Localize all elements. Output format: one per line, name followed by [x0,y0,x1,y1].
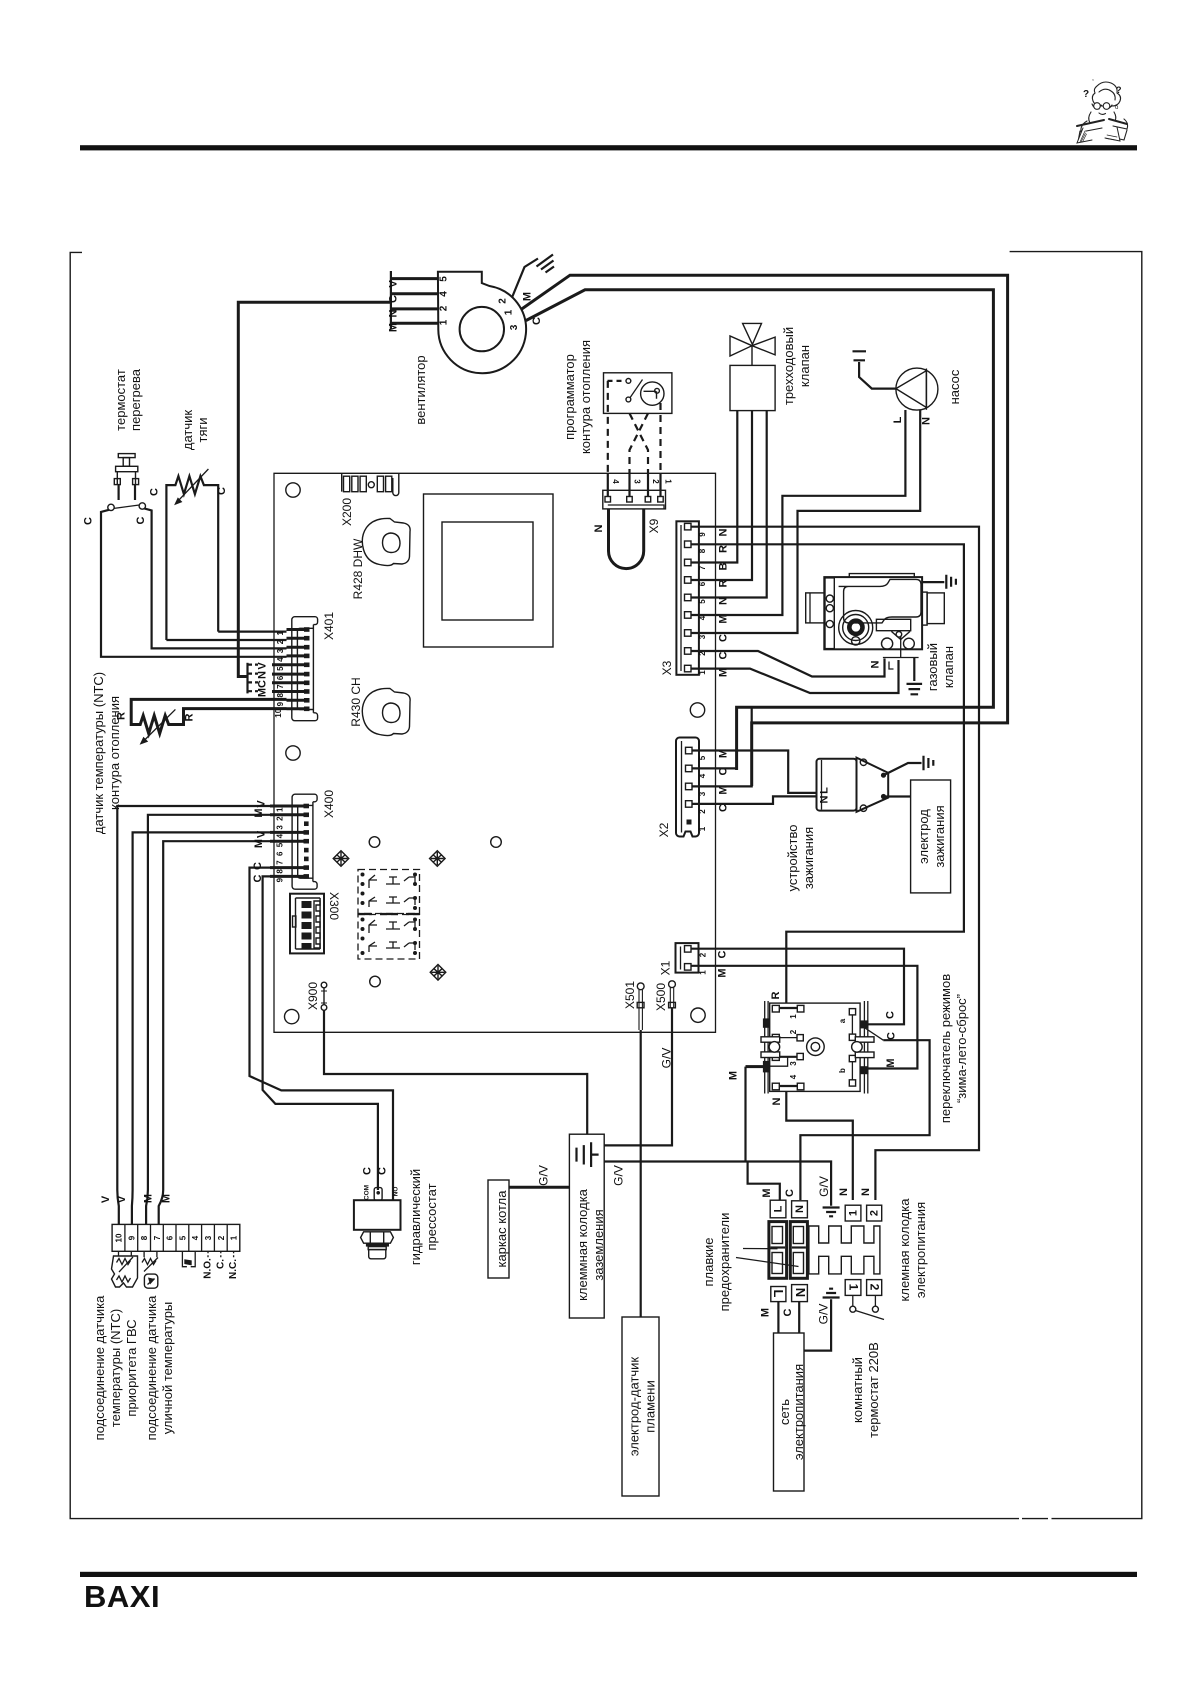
X900 wire to ground block [324,1010,587,1134]
PCB hole small mid [491,837,502,848]
svg-text:N: N [860,1188,872,1196]
comb body of power block [809,1226,880,1274]
svg-text:N: N [718,528,730,536]
svg-text:температуры (NTC): температуры (NTC) [108,1309,123,1427]
X401 connector body [292,617,318,721]
svg-text:N: N [838,1188,850,1196]
PCB mounting hole bottom-right [691,1008,705,1022]
X2 pin squares [686,747,693,807]
svg-text:2: 2 [276,816,285,821]
svg-text:прессостат: прессостат [424,1183,439,1250]
ignition device ground wire [884,763,922,775]
X9 connector [603,490,666,509]
svg-text:V: V [116,1195,128,1203]
svg-text:каркас котла: каркас котла [494,1190,509,1268]
switch left M wire continuation to power terminal L [746,1067,780,1200]
svg-text:электрод-датчик: электрод-датчик [627,1357,642,1457]
svg-text:“зима-лето-сброс”: “зима-лето-сброс” [954,994,969,1103]
svg-text:X501: X501 [623,981,637,1009]
svg-text:2: 2 [276,639,285,644]
terminal strip numbers 10..1 [115,1233,239,1242]
X3 pin numbers 9..1 [698,532,707,675]
svg-text:5: 5 [698,599,707,604]
svg-text:перегрева: перегрева [128,368,143,431]
svg-text:3: 3 [698,791,707,796]
svg-text:термостат 220В: термостат 220В [866,1342,881,1438]
PCB outline [274,473,716,1032]
X1 pin2 C wire to mode switch a [691,949,904,1025]
ground terminal bottom [823,1289,840,1305]
svg-text:3: 3 [509,324,520,330]
svg-text:X9: X9 [647,518,661,533]
svg-text:R: R [718,545,730,553]
svg-text:9: 9 [698,532,707,537]
gas valve funnel [891,631,910,639]
pump circle [896,368,938,410]
svg-text:электропитания: электропитания [913,1202,928,1298]
left cam plates + roller [761,1037,780,1042]
svg-text:1: 1 [848,1210,860,1216]
terminal L bottom [771,1287,786,1302]
PCB hole small below relays [370,976,381,987]
svg-text:приоритета ГВС: приоритета ГВС [124,1319,139,1416]
X3 pin6 R wire to valve [691,411,752,580]
svg-text:V: V [100,1195,112,1203]
X3 pin8 R wire to mode switch R [691,544,964,1003]
svg-text:1: 1 [789,1014,798,1019]
svg-text:клеммная колодка: клеммная колодка [575,1188,590,1301]
ignition device right trapezoid [857,758,889,812]
svg-text:C: C [257,680,269,688]
svg-text:3: 3 [276,648,285,653]
каркас котла box [488,1180,509,1278]
svg-text:1: 1 [699,970,708,975]
svg-text:L: L [771,1290,786,1298]
ground block box [569,1134,604,1318]
draft sensor wires to X401 [166,639,286,641]
NTC heating-circuit temperature sensor resistor [131,699,286,744]
svg-text:9: 9 [127,1235,136,1240]
svg-text:гидравлический: гидравлический [408,1169,423,1265]
svg-text:пламени: пламени [643,1380,658,1432]
relay block dashed boxes [358,870,420,960]
svg-text:4: 4 [789,1074,798,1079]
svg-text:4: 4 [611,479,620,484]
PCB mounting hole top-left [286,483,300,497]
X900 component [321,982,327,1010]
svg-text:10: 10 [115,1233,124,1242]
svg-text:1: 1 [439,319,450,325]
svg-text:сеть: сеть [777,1399,792,1425]
каркас котла wire [509,1186,569,1189]
X3 pin4 M wire to pump L [691,410,905,615]
svg-text:плавкие: плавкие [701,1238,716,1287]
svg-text:N.C.: N.C. [228,1259,239,1279]
svg-text:программатор: программатор [562,354,577,440]
gas valve lower box [876,619,910,630]
transformer outer square [424,494,554,647]
switch left M wire [755,1065,766,1068]
svg-text:X401: X401 [322,612,336,640]
svg-text:M: M [388,323,400,332]
svg-text:N.O.: N.O. [203,1258,214,1279]
hatched diamond pad (near X400) [333,851,349,867]
PCB mounting hole mid-left [286,746,300,760]
svg-text:1: 1 [847,1284,861,1291]
svg-text:6: 6 [698,581,707,586]
NTC sensor blob below cells 10/9 [112,1251,138,1287]
svg-text:2: 2 [869,1210,881,1216]
X3 pin1 M wire to gas valve L [691,660,899,693]
PCB mounting hole right-mid [690,703,704,717]
svg-text:M: M [717,968,729,977]
svg-text:N: N [870,660,882,668]
L mark (gas valve) [889,662,894,670]
svg-text:X500: X500 [654,983,668,1011]
gas valve body [824,577,922,649]
svg-text:C.: C. [215,1259,226,1269]
fuse box 1 [769,1222,787,1279]
X400 wire V pin4 [132,832,270,1224]
svg-text:заземления: заземления [591,1209,606,1280]
programmer box [604,373,672,414]
svg-text:8: 8 [140,1235,149,1240]
svg-text:8: 8 [276,693,285,698]
X3 pin9 N wire to power terminal 2 [691,527,979,1200]
flame electrode box [622,1317,659,1496]
X3 pin squares [685,523,692,671]
X1 connector body [676,943,699,973]
draft sensor (датчик тяги) resistor [166,469,218,640]
svg-text:зажигания: зажигания [932,805,947,867]
svg-text:клапан: клапан [941,646,956,688]
svg-text:COM: COM [364,1185,371,1200]
svg-text:M: M [253,839,265,848]
svg-text:4: 4 [439,291,450,297]
right contact blobs [860,1020,869,1028]
svg-text:C: C [718,634,730,642]
svg-text:уличной температуры: уличной температуры [160,1302,175,1435]
ground (pump) [853,351,867,360]
NO terminal stub [392,1185,394,1200]
ground (ignition device) [924,756,934,770]
svg-text:6: 6 [166,1235,175,1240]
svg-text:1: 1 [698,670,707,675]
pressostat body [354,1200,401,1230]
svg-text:?: ? [1116,85,1122,95]
fan-out bar at X401 [246,663,248,694]
relay pins left column [361,873,365,956]
svg-text:1: 1 [504,309,515,315]
X401 pin stubs [272,630,306,709]
svg-text:10: 10 [274,708,283,717]
X200 connector header [342,474,399,496]
gas valve right flange boxes [922,592,927,625]
gas valve lower circles [882,638,893,649]
svg-text:вентилятор: вентилятор [413,355,428,424]
X3 pin2 C wire to gas valve N [691,651,885,677]
fan connector bar [390,271,392,329]
svg-text:N: N [257,671,269,679]
relay symbols [369,875,415,952]
svg-text:3: 3 [698,634,707,639]
svg-text:4: 4 [698,773,707,778]
svg-text:8: 8 [276,869,285,874]
svg-text:X3: X3 [660,660,674,675]
svg-text:C: C [135,516,147,524]
X1 pin squares [685,946,692,971]
svg-text:C: C [377,1167,389,1175]
fuse callout lines [736,1249,799,1267]
switch blade [862,1026,883,1040]
X501 flame-electrode terminal [637,983,644,1030]
svg-text:тяги: тяги [195,418,210,443]
svg-text:M: M [143,1194,155,1203]
svg-text:C: C [718,651,730,659]
svg-text:7: 7 [698,565,707,570]
svg-text:1: 1 [276,631,285,636]
X3 pin7 B wire to valve [691,411,737,563]
svg-text:6: 6 [276,851,285,856]
svg-text:7: 7 [276,860,285,865]
svg-text:b: b [838,1068,847,1073]
transformer inner square [442,522,533,620]
svg-text:a: a [838,1018,847,1023]
ignition electrode wire [884,795,911,797]
potentiometer R430 CH [362,688,410,735]
programmer contact circles and blade [626,379,631,384]
svg-text:газовый: газовый [925,643,940,691]
top rule [80,145,1137,150]
gas valve main chamber [839,579,921,623]
outdoor sensor resistor below cells 8/7 [142,1251,158,1288]
svg-text:C: C [531,317,543,325]
svg-text:2: 2 [498,298,509,304]
svg-text:2: 2 [698,809,707,814]
svg-text:C: C [718,804,730,812]
gas valve solenoid circle [839,611,873,645]
X400 wire M pin5 [159,841,270,1224]
terminal N bottom [792,1285,808,1302]
svg-text:электрод: электрод [916,809,931,864]
svg-text:C: C [83,517,95,525]
fan inner circle [460,307,504,351]
room thermostat contact [852,1295,854,1306]
X1 pin1 M wire to mode switch b [691,966,917,1069]
svg-text:переключатель режимов: переключатель режимов [938,974,953,1123]
X500 wire to ground block [604,1008,672,1145]
X400 pin dots [304,804,310,879]
svg-text:насос: насос [947,369,962,404]
svg-text:C: C [886,1032,898,1040]
svg-text:BAXI: BAXI [84,1579,160,1614]
svg-text:2: 2 [217,1235,226,1240]
svg-text:3: 3 [276,825,285,830]
svg-text:5: 5 [276,666,285,671]
svg-text:G/V: G/V [817,1176,831,1197]
svg-text:C: C [782,1308,794,1316]
svg-text:N: N [793,1288,808,1297]
svg-text:M: M [761,1188,773,1197]
X2 pin3 M wire (from fan) [692,707,752,786]
svg-text:M: M [161,1194,173,1203]
svg-text:M: M [728,1071,740,1080]
ignition device body [817,759,857,811]
diagram frame [70,252,1142,1519]
X2 pin2 C wire to ignition device N [692,796,817,804]
svg-text:L: L [892,416,904,423]
svg-text:,: , [1092,75,1094,82]
terminal 3 [772,1054,779,1061]
svg-text:1: 1 [698,826,707,831]
X501 wire to flame electrode box [640,1030,642,1317]
svg-text:1: 1 [276,807,285,812]
svg-text:клапан: клапан [797,345,812,387]
svg-text:R428 DHW: R428 DHW [351,538,365,599]
terminal 2 bottom [867,1280,882,1296]
ignition electrode box [911,780,951,893]
hatched diamond pad (right of relays bottom) [430,965,446,981]
svg-text:V: V [257,662,269,670]
earth symbol inside [577,1142,599,1167]
switch blade wire C to power N terminal [800,1040,929,1200]
svg-text:3: 3 [204,1235,213,1240]
X400 pin stubs [270,806,305,876]
svg-text:5: 5 [698,755,707,760]
hatched diamond pad (right of relays top) [430,851,446,867]
PCB mounting hole bottom-left [285,1009,299,1023]
svg-text:контура отопления: контура отопления [578,340,593,454]
svg-text:электропитания: электропитания [791,1364,806,1460]
programmer contact dashed input [608,380,625,382]
svg-text:термостат: термостат [113,369,128,431]
3-way valve symbol [730,323,775,365]
svg-text:G/V: G/V [537,1165,551,1186]
svg-text:M: M [885,1058,897,1067]
terminal a [849,1009,855,1015]
ground (gas valve right) [946,575,956,589]
COM terminal [374,1188,382,1201]
svg-text:X200: X200 [340,498,354,526]
svg-text:C: C [717,950,729,958]
left guide lines [765,1001,768,1094]
svg-text:7: 7 [276,684,285,689]
ground block G/V wire to power ground [604,1162,831,1201]
terminal 1 bottom [845,1280,861,1296]
svg-text:N: N [819,795,831,803]
gas valve left flange [806,593,825,623]
programmer motor circle [641,382,664,405]
svg-text:N: N [771,1097,783,1105]
cartoon mascot reading manual [1077,75,1128,143]
svg-text:R430 CH: R430 CH [349,677,363,726]
svg-text:датчик: датчик [180,410,195,451]
svg-text:C: C [885,1011,897,1019]
programmer pin stubs into X9 [608,473,661,497]
svg-text:клемная колодка: клемная колодка [897,1198,912,1302]
X400 wire C pin8 to pressostat NO [250,868,394,1185]
svg-text:4: 4 [191,1235,200,1240]
X401 pin dots [304,627,310,711]
svg-text:2: 2 [868,1284,882,1291]
right guide lines [864,1001,867,1094]
X2 wire letters [718,749,730,812]
X3 connector body [676,521,699,675]
gas valve top cap [849,574,914,578]
svg-text:1: 1 [664,479,673,484]
svg-text:5: 5 [178,1235,187,1240]
terminal strip body [112,1224,240,1251]
X2 pin5 M wire to ignition device L [692,751,817,793]
svg-text:4: 4 [276,833,285,838]
svg-text:C: C [362,1167,374,1175]
X401 pin numbers [274,631,285,718]
X400 wire C pin9 to pressostat COM [263,876,378,1190]
svg-text:8: 8 [698,548,707,553]
svg-text:2: 2 [699,952,708,957]
svg-text:NO: NO [393,1187,400,1197]
gas valve left strip [825,578,834,649]
pump triangle [896,371,927,408]
X2 pin numbers 5..1 [698,755,707,831]
pump ground wire [859,362,896,389]
X400 wire V pin1 [117,806,270,1224]
PCB hole small left of relays [369,837,380,848]
svg-text:2: 2 [789,1029,798,1034]
svg-text:X300: X300 [327,892,341,920]
X2 connector body [676,738,699,837]
svg-text:G/V: G/V [660,1048,674,1069]
X2 pin4 C wire (from fan) [692,707,737,770]
ground (gas valve below) [907,684,923,694]
fan wire M long [521,275,1008,786]
X400 pin numbers [276,807,285,882]
X500 terminal [669,981,676,1008]
svg-text:V: V [388,280,400,288]
svg-text:подсоединение датчика: подсоединение датчика [144,1295,159,1440]
svg-text:N: N [388,309,400,317]
svg-text:комнатный: комнатный [850,1357,865,1423]
fan bundle wire down to X401 area [238,302,391,676]
svg-text:C: C [252,862,264,870]
svg-text:C: C [252,874,264,882]
jumper symbol below cells 5/4 [182,1251,195,1266]
thermostat wire left (C) [101,510,287,657]
svg-text:9: 9 [276,877,285,882]
svg-text:X1: X1 [659,960,673,975]
svg-text:R: R [770,991,782,999]
gas valve terminal bar [883,636,919,658]
svg-text:5: 5 [439,276,450,282]
X3 wire letters N R B R N M C C M [718,528,730,677]
fan ground wire [512,259,538,298]
svg-text:2: 2 [439,305,450,311]
svg-text:C: C [149,488,161,496]
svg-text:устройство: устройство [785,825,800,892]
svg-text:N: N [593,524,605,532]
center rotor double circle [807,1038,825,1056]
svg-text:X400: X400 [322,790,336,818]
svg-text:V: V [256,830,268,838]
X300 connector [290,894,324,954]
svg-text:L: L [773,1205,785,1212]
right cam plates + roller [855,1037,874,1042]
svg-text:1: 1 [230,1235,239,1240]
svg-text:B: B [718,562,730,570]
mains C wire [798,1302,800,1333]
svg-text:предохранители: предохранители [717,1213,732,1312]
terminal 2 top [867,1205,882,1221]
